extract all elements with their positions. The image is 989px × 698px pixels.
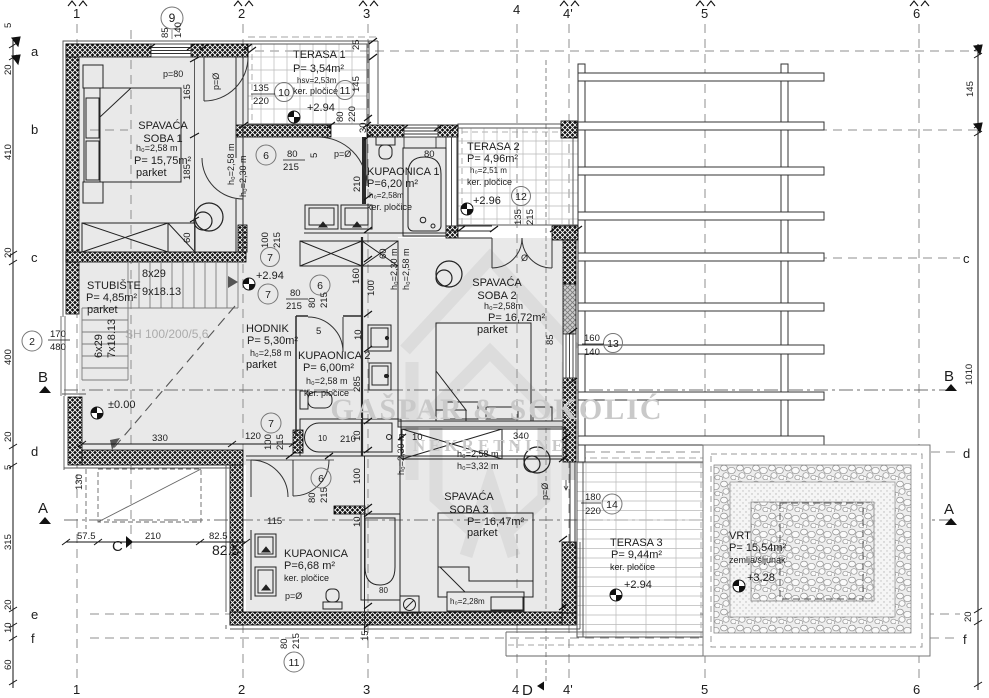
svg-text:20: 20 bbox=[3, 64, 14, 75]
svg-text:20: 20 bbox=[3, 431, 14, 442]
svg-text:TERASA 1: TERASA 1 bbox=[293, 49, 346, 61]
svg-text:ker. pločice: ker. pločice bbox=[304, 388, 349, 398]
svg-text:330: 330 bbox=[152, 433, 168, 444]
svg-text:135: 135 bbox=[253, 83, 269, 94]
toilet bbox=[300, 391, 308, 409]
svg-text:220: 220 bbox=[585, 506, 601, 517]
svg-text:185: 185 bbox=[182, 164, 193, 180]
outdoor terrace lower-left bbox=[61, 316, 201, 529]
svg-text:P= 3,54m²: P= 3,54m² bbox=[293, 63, 344, 75]
svg-text:P= 16,72m²: P= 16,72m² bbox=[488, 312, 546, 324]
svg-text:SH 100/200/5,6: SH 100/200/5,6 bbox=[125, 327, 209, 341]
svg-text:5: 5 bbox=[701, 6, 708, 21]
svg-text:80: 80 bbox=[279, 638, 290, 649]
svg-text:85: 85 bbox=[160, 27, 171, 38]
svg-text:285: 285 bbox=[352, 376, 363, 392]
svg-text:h₀=2,51 m: h₀=2,51 m bbox=[470, 166, 507, 175]
top wall B bbox=[191, 44, 248, 57]
svg-text:215: 215 bbox=[525, 209, 536, 225]
terasa1 entry door bbox=[318, 137, 367, 186]
svg-text:215: 215 bbox=[291, 633, 302, 649]
svg-text:2: 2 bbox=[29, 336, 35, 348]
svg-text:P= 4,85m²: P= 4,85m² bbox=[86, 292, 137, 304]
svg-text:220: 220 bbox=[253, 96, 269, 107]
svg-text:3: 3 bbox=[363, 6, 370, 21]
svg-text:10: 10 bbox=[412, 432, 423, 443]
svg-text:60: 60 bbox=[182, 232, 193, 243]
svg-text:ker. pločice: ker. pločice bbox=[367, 202, 412, 212]
svg-text:h₀=2,58m: h₀=2,58m bbox=[484, 301, 523, 311]
svg-text:SPAVAĆA: SPAVAĆA bbox=[472, 276, 522, 289]
svg-text:145: 145 bbox=[351, 76, 362, 92]
kup1 north wall bbox=[367, 125, 404, 137]
top axis chevrons bbox=[68, 1, 929, 6]
svg-text:h₀=2,28m: h₀=2,28m bbox=[450, 597, 485, 606]
svg-text:6: 6 bbox=[317, 280, 323, 292]
row f bbox=[90, 637, 960, 639]
svg-text:11: 11 bbox=[289, 657, 300, 669]
svg-text:10: 10 bbox=[318, 434, 327, 443]
svg-text:13: 13 bbox=[607, 338, 619, 350]
svg-text:parket: parket bbox=[246, 359, 277, 371]
gray labels bbox=[125, 69, 550, 601]
svg-text:10: 10 bbox=[3, 622, 14, 633]
axis 6 bbox=[918, 24, 920, 682]
svg-text:82.5: 82.5 bbox=[209, 531, 228, 542]
svg-text:100: 100 bbox=[263, 434, 274, 450]
soba3 east wall lower bbox=[562, 542, 576, 613]
svg-text:h₀=2,58 m: h₀=2,58 m bbox=[136, 143, 178, 153]
sinks stacked bbox=[368, 325, 391, 351]
svg-text:p=Ø: p=Ø bbox=[540, 483, 550, 500]
svg-text:20: 20 bbox=[963, 611, 974, 622]
svg-text:6: 6 bbox=[318, 473, 324, 485]
k2 stub bbox=[293, 430, 303, 453]
svg-text:B: B bbox=[944, 368, 954, 385]
svg-text:100: 100 bbox=[352, 468, 363, 484]
svg-text:7: 7 bbox=[267, 252, 273, 264]
exterior outline thin bbox=[62, 41, 580, 629]
bedroom1 balcony door bbox=[204, 57, 248, 101]
svg-text:2: 2 bbox=[238, 682, 245, 697]
svg-text:5: 5 bbox=[309, 153, 320, 158]
svg-text:d: d bbox=[963, 446, 970, 461]
svg-text:410: 410 bbox=[3, 144, 14, 160]
axis D dense dashed bbox=[545, 60, 547, 682]
svg-text:85: 85 bbox=[545, 334, 556, 345]
svg-text:4': 4' bbox=[563, 6, 573, 21]
svg-text:60: 60 bbox=[378, 248, 389, 259]
svg-text:10: 10 bbox=[278, 87, 290, 99]
svg-text:parket: parket bbox=[136, 167, 167, 179]
svg-text:ker. pločice: ker. pločice bbox=[293, 86, 338, 96]
svg-text:parket: parket bbox=[477, 324, 508, 336]
svg-text:+3,28: +3,28 bbox=[747, 572, 775, 584]
washing machine bbox=[369, 363, 391, 390]
svg-text:ker. pločice: ker. pločice bbox=[284, 573, 329, 583]
svg-text:p=80: p=80 bbox=[163, 69, 183, 79]
post 2 bbox=[781, 64, 788, 445]
vertical tub bbox=[361, 514, 400, 600]
section letters bbox=[38, 368, 954, 555]
svg-text:P=6,20 m²: P=6,20 m² bbox=[367, 178, 418, 190]
soba2 north wall threshold bbox=[552, 226, 578, 240]
svg-text:20: 20 bbox=[3, 247, 14, 258]
svg-text:h₀=2,58 m: h₀=2,58 m bbox=[226, 143, 236, 185]
svg-text:HODNIK: HODNIK bbox=[246, 323, 289, 335]
svg-text:10: 10 bbox=[353, 329, 364, 340]
svg-text:+2.94: +2.94 bbox=[256, 270, 284, 282]
wardrobe with X bbox=[82, 223, 195, 252]
sinks bbox=[305, 205, 338, 229]
svg-text:215: 215 bbox=[319, 487, 330, 503]
svg-text:zemlja/šljunak: zemlja/šljunak bbox=[729, 555, 786, 565]
svg-text:315: 315 bbox=[3, 534, 14, 550]
svg-text:P= 4,96m²: P= 4,96m² bbox=[467, 153, 518, 165]
svg-text:165: 165 bbox=[182, 84, 193, 100]
svg-text:160: 160 bbox=[584, 333, 600, 344]
svg-text:h₀=2,58 m: h₀=2,58 m bbox=[306, 376, 348, 386]
axis 1b bbox=[130, 30, 132, 552]
interior thin walls bbox=[236, 57, 563, 633]
svg-text:100: 100 bbox=[366, 280, 377, 296]
svg-text:215: 215 bbox=[283, 162, 299, 173]
svg-text:210: 210 bbox=[145, 531, 161, 542]
svg-text:215: 215 bbox=[275, 434, 286, 450]
svg-text:100: 100 bbox=[260, 232, 271, 248]
hodnik closet bbox=[300, 241, 398, 266]
svg-text:SPAVAĆA: SPAVAĆA bbox=[444, 490, 494, 503]
post 1 bbox=[578, 64, 585, 462]
svg-text:d: d bbox=[31, 444, 38, 459]
svg-text:80: 80 bbox=[335, 111, 346, 122]
apron lines bottom bbox=[506, 632, 930, 656]
svg-text:2: 2 bbox=[238, 6, 245, 21]
svg-text:h₀=3,32 m: h₀=3,32 m bbox=[457, 461, 499, 471]
top wall A bbox=[66, 44, 151, 57]
svg-text:170: 170 bbox=[50, 329, 66, 340]
pillows / nightstands bbox=[83, 65, 103, 88]
axis 2 bbox=[242, 24, 244, 682]
svg-text:7x18.13: 7x18.13 bbox=[106, 319, 118, 358]
svg-text:4: 4 bbox=[512, 682, 519, 697]
svg-text:h₀=2,58m: h₀=2,58m bbox=[369, 191, 404, 200]
right wall segments bbox=[563, 240, 576, 284]
svg-text:5: 5 bbox=[316, 326, 321, 337]
row c bbox=[90, 257, 128, 259]
svg-text:KUPAONICA 1: KUPAONICA 1 bbox=[367, 166, 440, 178]
svg-text:6: 6 bbox=[913, 682, 920, 697]
pillar bbox=[561, 121, 577, 138]
bathtub bbox=[403, 148, 446, 236]
svg-text:210: 210 bbox=[340, 434, 356, 445]
svg-text:140: 140 bbox=[584, 347, 600, 358]
svg-text:7: 7 bbox=[268, 418, 274, 430]
hodnik door bottom bbox=[251, 460, 288, 497]
svg-text:5: 5 bbox=[3, 23, 14, 28]
svg-text:h₀=2,30 m: h₀=2,30 m bbox=[238, 155, 248, 197]
svg-text:p=Ø: p=Ø bbox=[211, 73, 221, 90]
svg-text:14: 14 bbox=[606, 499, 618, 511]
bathtub horizontal bbox=[300, 419, 401, 456]
svg-text:9x18.13: 9x18.13 bbox=[142, 286, 181, 298]
small top-left corner arrows bbox=[12, 37, 982, 132]
kupaonica2 door bbox=[308, 317, 343, 352]
svg-text:180: 180 bbox=[585, 492, 601, 503]
svg-text:400: 400 bbox=[3, 349, 14, 365]
svg-text:b: b bbox=[31, 122, 38, 137]
svg-text:SPAVAĆA: SPAVAĆA bbox=[138, 119, 188, 132]
svg-text:1: 1 bbox=[73, 682, 80, 697]
svg-text:5: 5 bbox=[3, 465, 14, 470]
svg-text:Ø: Ø bbox=[521, 253, 528, 263]
svg-text:KUPAONICA: KUPAONICA bbox=[284, 548, 349, 560]
svg-text:B: B bbox=[38, 369, 48, 386]
svg-text:P=6,68 m²: P=6,68 m² bbox=[284, 560, 335, 572]
svg-text:215: 215 bbox=[272, 232, 283, 248]
svg-text:a: a bbox=[31, 44, 39, 59]
svg-text:60: 60 bbox=[3, 659, 14, 670]
svg-text:p=Ø: p=Ø bbox=[285, 591, 302, 601]
svg-text:80: 80 bbox=[307, 297, 318, 308]
svg-text:12: 12 bbox=[515, 191, 527, 203]
svg-text:135: 135 bbox=[513, 209, 524, 225]
svg-text:80: 80 bbox=[287, 149, 298, 160]
svg-text:145: 145 bbox=[965, 81, 976, 97]
svg-text:+2.94: +2.94 bbox=[624, 579, 652, 591]
section line A bbox=[64, 519, 952, 521]
svg-text:h₀=2,58 m: h₀=2,58 m bbox=[457, 449, 499, 459]
svg-text:10: 10 bbox=[352, 516, 363, 527]
svg-text:6: 6 bbox=[263, 150, 269, 162]
kup bottom wall stub bbox=[334, 506, 365, 514]
axis 5 bbox=[704, 24, 706, 682]
svg-text:KUPAONICA 2: KUPAONICA 2 bbox=[298, 350, 371, 362]
svg-text:parket: parket bbox=[87, 304, 118, 316]
toilet bbox=[323, 602, 342, 609]
svg-text:A: A bbox=[38, 500, 48, 517]
axis 9 bbox=[171, 30, 173, 57]
svg-text:5: 5 bbox=[701, 682, 708, 697]
svg-text:130: 130 bbox=[74, 474, 85, 490]
svg-text:3: 3 bbox=[363, 682, 370, 697]
svg-text:ker. pločice: ker. pločice bbox=[467, 177, 512, 187]
svg-text:A: A bbox=[944, 501, 954, 518]
row d bbox=[90, 451, 130, 453]
svg-text:120: 120 bbox=[245, 431, 261, 442]
svg-text:82.5: 82.5 bbox=[212, 542, 239, 558]
svg-text:f: f bbox=[963, 632, 967, 647]
axis 1 bbox=[76, 24, 78, 682]
svg-text:TERASA 2: TERASA 2 bbox=[467, 141, 520, 153]
row a bbox=[90, 50, 978, 52]
svg-text:P= 9,44m²: P= 9,44m² bbox=[611, 549, 662, 561]
svg-text:h₀=2,30 m: h₀=2,30 m bbox=[389, 248, 399, 290]
svg-text:C: C bbox=[112, 538, 123, 555]
axis 3 bbox=[367, 24, 369, 682]
svg-text:+2.96: +2.96 bbox=[473, 195, 501, 207]
svg-text:80: 80 bbox=[424, 149, 435, 160]
soba3 door bbox=[293, 460, 329, 496]
axis 4' bbox=[568, 24, 570, 682]
svg-text:c: c bbox=[963, 251, 970, 266]
bed 1 bbox=[84, 88, 181, 182]
svg-text:57.5: 57.5 bbox=[77, 531, 96, 542]
svg-text:80: 80 bbox=[307, 492, 318, 503]
svg-text:80: 80 bbox=[379, 586, 388, 595]
svg-text:D: D bbox=[522, 682, 533, 698]
svg-text:P= 6,00m²: P= 6,00m² bbox=[303, 362, 354, 374]
beams bbox=[578, 73, 824, 81]
svg-text:215: 215 bbox=[319, 292, 330, 308]
svg-text:c: c bbox=[31, 250, 38, 265]
svg-text:1: 1 bbox=[73, 6, 80, 21]
soba3 closet bbox=[402, 429, 566, 459]
column circles bbox=[194, 203, 550, 473]
svg-text:80: 80 bbox=[290, 288, 301, 299]
svg-text:STUBIŠTE: STUBIŠTE bbox=[87, 279, 141, 292]
svg-text:20: 20 bbox=[3, 599, 14, 610]
row e bbox=[90, 613, 235, 615]
row b bbox=[90, 129, 128, 131]
toilet bbox=[376, 137, 395, 145]
svg-text:f: f bbox=[31, 631, 35, 646]
window in top wall bbox=[151, 44, 576, 378]
svg-text:215: 215 bbox=[286, 301, 302, 312]
tick marks at wall dimension points bbox=[147, 38, 582, 628]
svg-text:4: 4 bbox=[513, 2, 520, 17]
svg-text:hsv=2,53m: hsv=2,53m bbox=[297, 76, 337, 85]
svg-text:±0.00: ±0.00 bbox=[108, 399, 135, 411]
left wall bbox=[66, 44, 79, 314]
svg-text:h₀=2,30 m: h₀=2,30 m bbox=[396, 433, 406, 475]
svg-text:11: 11 bbox=[340, 85, 351, 97]
svg-text:480: 480 bbox=[50, 342, 66, 353]
washing machine bbox=[400, 596, 419, 613]
vanity sinks bbox=[255, 534, 276, 557]
entry band bbox=[236, 125, 331, 137]
svg-text:6x29: 6x29 bbox=[93, 334, 105, 358]
svg-text:+2.94: +2.94 bbox=[307, 102, 335, 114]
svg-text:140: 140 bbox=[173, 22, 184, 38]
svg-text:P= 5,30m²: P= 5,30m² bbox=[247, 335, 298, 347]
svg-text:TERASA 3: TERASA 3 bbox=[610, 537, 663, 549]
svg-text:P= 15,54m²: P= 15,54m² bbox=[729, 542, 787, 554]
soba2 terasa double door bbox=[492, 238, 552, 268]
bedroom1 door from hall bbox=[202, 158, 243, 199]
terasa3 door leaves bbox=[569, 462, 571, 546]
svg-text:p=Ø: p=Ø bbox=[334, 149, 351, 159]
svg-text:160: 160 bbox=[351, 268, 362, 284]
axis 4 bbox=[516, 24, 518, 682]
svg-text:e: e bbox=[31, 607, 38, 622]
svg-text:210: 210 bbox=[352, 176, 363, 192]
svg-text:1010: 1010 bbox=[964, 364, 975, 385]
svg-text:VRT: VRT bbox=[729, 530, 751, 542]
bottom wall bbox=[230, 612, 562, 625]
svg-text:ker. pločice: ker. pločice bbox=[610, 562, 655, 572]
lower-left walls bbox=[68, 397, 82, 465]
svg-text:25: 25 bbox=[351, 39, 362, 50]
svg-text:7: 7 bbox=[265, 289, 271, 301]
tub east wall bbox=[446, 137, 457, 226]
svg-text:15: 15 bbox=[360, 630, 371, 641]
svg-text:340: 340 bbox=[513, 431, 529, 442]
section line B bbox=[64, 389, 952, 391]
svg-text:h₀=2,58 m: h₀=2,58 m bbox=[250, 348, 292, 358]
svg-text:8x29: 8x29 bbox=[142, 268, 166, 280]
svg-text:4': 4' bbox=[563, 682, 573, 697]
svg-text:220: 220 bbox=[347, 106, 358, 122]
svg-text:115: 115 bbox=[267, 516, 282, 527]
svg-text:parket: parket bbox=[467, 527, 498, 539]
stubiste band bbox=[66, 252, 246, 262]
svg-text:h₀=2,58 m: h₀=2,58 m bbox=[401, 248, 411, 290]
svg-text:GAŠPAR & SOKOLIĆ: GAŠPAR & SOKOLIĆ bbox=[330, 393, 663, 426]
svg-text:6: 6 bbox=[913, 6, 920, 21]
svg-text:SOBA 3: SOBA 3 bbox=[449, 504, 488, 516]
